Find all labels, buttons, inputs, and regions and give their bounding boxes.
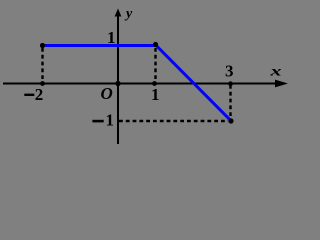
svg-text:O: O <box>101 84 113 103</box>
dashed guide x=-2 <box>41 48 43 82</box>
svg-text:y: y <box>124 7 133 22</box>
x-axis arrowhead <box>275 80 288 88</box>
svg-text:1: 1 <box>106 111 115 130</box>
tick label -1 minus <box>92 120 103 123</box>
svg-text:3: 3 <box>225 62 234 81</box>
dashed guide y=-1 <box>119 120 228 122</box>
endpoint dot (3,-1) <box>228 118 233 123</box>
tick label -2 minus <box>24 94 34 96</box>
axis dot x=-2 <box>40 81 45 86</box>
svg-text:x: x <box>269 65 282 80</box>
endpoint dot (-2,1) <box>40 43 45 48</box>
function: horizontal segment y=1 <box>43 44 156 47</box>
svg-text:2: 2 <box>35 85 44 104</box>
function: diagonal segment (1,1)-(3,-1) <box>156 45 231 121</box>
origin dot <box>115 81 120 86</box>
svg-text:1: 1 <box>151 85 160 104</box>
x-axis <box>3 83 284 85</box>
endpoint dot (1,1) <box>153 42 158 47</box>
svg-text:1: 1 <box>107 28 116 47</box>
y-axis <box>117 13 119 144</box>
axis dot x=3 <box>228 81 233 86</box>
y-axis arrowhead <box>115 9 122 17</box>
axis dot x=1 <box>152 81 157 86</box>
dashed guide x=1 <box>154 48 156 82</box>
dashed guide x=3 <box>229 85 231 118</box>
piecewise-function graph <box>0 0 292 147</box>
